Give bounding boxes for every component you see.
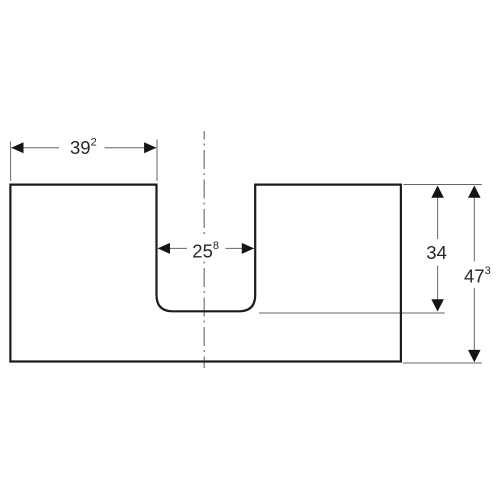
arrow right of 25 dim: [242, 243, 254, 254]
svg-text:34: 34: [426, 242, 447, 263]
arrow bottom of 34 dim: [431, 299, 444, 311]
white gap behind label 47: [462, 262, 493, 289]
arrow right of 39 dim: [144, 142, 156, 153]
arrow left of 25 dim: [158, 243, 170, 254]
white gap behind label 39: [59, 139, 105, 158]
extension line left of 39 dim: [10, 142, 12, 182]
dimension line 47 (vertical): [473, 187, 475, 362]
white gap behind label 25: [187, 237, 226, 262]
extension line top right (for 34 and 47 dims): [403, 184, 482, 186]
countertop outline with U-shaped cutout: [10, 185, 401, 362]
dimension line 39: [12, 147, 156, 149]
extension line middle right (bottom of 34 dim): [259, 312, 445, 314]
arrow top of 47 dim: [468, 186, 481, 198]
extension line right of 39 dim: [156, 140, 158, 182]
arrow left of 39 dim: [11, 142, 23, 153]
extension line bottom right (bottom of 47 dim): [403, 362, 482, 364]
dimension line 25: [158, 247, 254, 249]
white gap behind label 34: [425, 239, 449, 266]
arrow bottom of 47 dim: [468, 350, 481, 362]
dimension line 34 (vertical): [437, 187, 439, 311]
arrow top of 34 dim: [431, 186, 444, 198]
centerline (dash-dot vertical axis): [203, 131, 205, 368]
